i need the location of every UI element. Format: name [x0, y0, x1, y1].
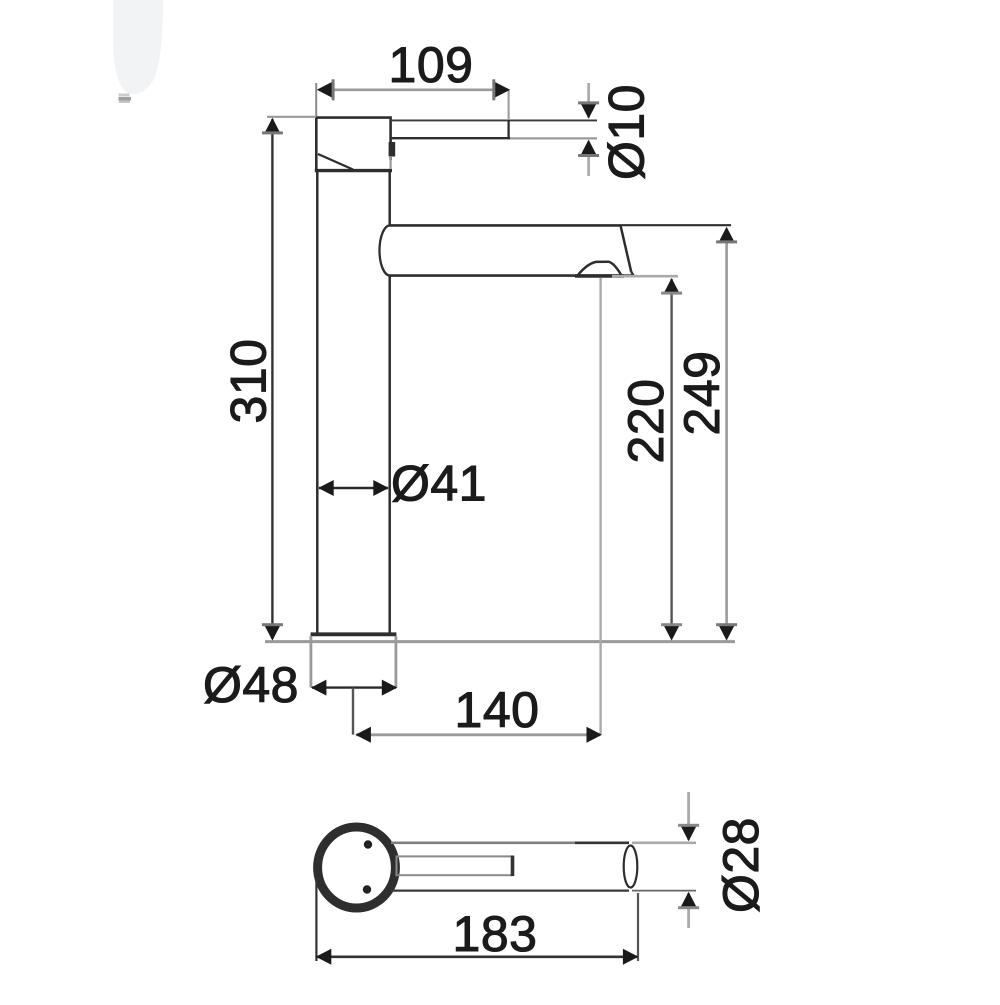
plan lever arm — [391, 843, 629, 891]
svg-text:140: 140 — [455, 682, 540, 738]
dim 183 — [316, 878, 639, 965]
dim O10 — [578, 83, 654, 180]
screw hole lower — [363, 885, 371, 893]
svg-text:249: 249 — [674, 351, 730, 436]
base flange — [311, 632, 397, 636]
dim O48 — [203, 657, 397, 735]
svg-text:183: 183 — [453, 906, 538, 962]
svg-text:220: 220 — [618, 379, 674, 464]
svg-text:310: 310 — [221, 339, 277, 424]
body column — [317, 171, 389, 634]
screw hole upper — [364, 840, 372, 848]
dim 109 — [316, 37, 510, 119]
handle side tab — [389, 142, 396, 169]
dim 249 — [674, 227, 737, 641]
base sides below counter — [311, 636, 396, 688]
lever arm (side view) — [390, 120, 597, 140]
plan arm slot — [397, 856, 513, 876]
svg-text:Ø10: Ø10 — [599, 84, 655, 180]
dim O28 — [632, 792, 769, 928]
svg-text:109: 109 — [389, 37, 474, 93]
watermark blob top-left — [113, 0, 163, 103]
dim 140 — [355, 278, 602, 743]
dim 220 — [612, 276, 682, 640]
svg-text:Ø48: Ø48 — [203, 657, 299, 713]
aerator dome — [575, 262, 624, 276]
counter baseline — [265, 640, 735, 643]
svg-text:Ø41: Ø41 — [391, 456, 487, 512]
plan arm end cap — [624, 846, 638, 888]
spout — [379, 225, 731, 275]
dim 310 — [221, 117, 317, 641]
handle cap (mixer cartridge head) — [315, 118, 392, 171]
handle lever indicator diagonal — [318, 154, 353, 170]
plan view base circle — [318, 827, 396, 908]
svg-text:Ø28: Ø28 — [713, 817, 769, 913]
dim O41 — [318, 456, 487, 512]
